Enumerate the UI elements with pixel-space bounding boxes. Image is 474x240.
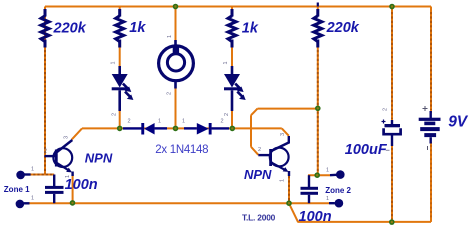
wire R3 top stub [231,7,233,12]
svg-text:1: 1 [158,119,161,125]
svg-text:2: 2 [383,108,389,111]
svg-text:1k: 1k [242,20,259,36]
junction node rail-lamp [173,4,179,10]
junction node B [173,126,179,132]
zone 1 terminal 2 [16,200,30,209]
svg-text:3: 3 [64,136,70,139]
wire Q1 emitter run [72,174,74,203]
wire branch vertical [250,115,252,147]
wire battery bottom column [430,142,432,222]
wire 100uF bottom column [391,145,393,222]
resistor lead tip above rail [317,3,319,7]
resistor 1k left [116,9,124,48]
svg-text:100n: 100n [65,177,98,193]
svg-text:2: 2 [44,149,47,155]
junction node C [230,126,236,132]
zone 2 terminal 1 [330,170,345,179]
svg-text:1: 1 [280,179,286,182]
svg-text:2: 2 [167,92,173,95]
svg-text:1: 1 [326,196,329,202]
junction node G Q2 emitter [286,200,292,206]
wire LED1 to node A [119,110,121,128]
junction node D [315,106,321,112]
svg-text:1: 1 [223,61,229,64]
wire R2 top stub [119,7,121,12]
transistor Q2 NPN [258,136,289,176]
wire R4 top stub [317,7,319,12]
wire LED2 to node C [231,110,233,128]
svg-text:2: 2 [128,119,131,125]
svg-text:1: 1 [182,119,185,125]
wire R2 to LED1 [119,47,121,67]
svg-text:1: 1 [65,175,71,178]
wire bottom rail [298,221,432,223]
battery minus pin mark [427,146,429,150]
svg-text:1: 1 [167,35,173,38]
svg-text:Zone 1: Zone 1 [4,185,30,194]
zone 1 terminal 1 [16,171,30,180]
wire zone2 top row [308,174,330,176]
svg-text:NPN: NPN [244,167,272,182]
svg-text:2x 1N4148: 2x 1N4148 [155,144,208,156]
svg-text:1: 1 [326,168,329,174]
svg-text:2: 2 [112,113,118,116]
wire branch diagonal to Q2 base [251,147,258,155]
zone 2 terminal 2 [329,199,343,208]
wire battery top column [430,7,432,114]
svg-text:100n: 100n [299,209,332,225]
svg-text:1: 1 [31,196,34,202]
wire top rail [45,6,431,8]
svg-text:Zone 2: Zone 2 [325,186,351,195]
svg-text:2: 2 [258,147,261,153]
junction node E [314,172,320,178]
svg-text:1: 1 [111,61,117,64]
wire R3 to LED2 [231,47,233,67]
svg-text:3: 3 [280,133,286,136]
resistor 1k right [228,9,236,48]
diode 1N4148 left [123,123,167,135]
wire lamp bottom to node B [175,84,177,128]
junction node F Q1 emitter [70,200,76,206]
svg-text:1k: 1k [129,20,146,36]
wire middle diode row [82,127,282,129]
wire 100uF top column [391,7,393,123]
svg-text:2: 2 [224,113,230,116]
wire branch diagonal upper [251,109,258,116]
wire diagonal to Q2 collector [282,128,289,135]
LED D2 right [224,66,246,111]
buzzer/bell lamp [159,40,194,89]
wire Q2 emitter run [288,174,290,203]
pin mark near 100uF [386,149,390,151]
wire R1 column [44,7,46,175]
wire diagonal to bottom rail [289,204,298,222]
wire lamp top [175,10,177,38]
resistor 220k right [314,9,322,48]
wire zone1 top row [29,174,54,176]
resistor 220k left [41,9,49,48]
capacitor 100n right [301,175,319,203]
svg-text:2: 2 [221,119,224,125]
svg-text:T.L. 2000: T.L. 2000 [242,213,276,223]
wire R4 column [317,47,319,175]
wire bottom left rail [29,202,329,204]
capacitor 100uF electrolytic [382,120,401,147]
svg-text:220k: 220k [53,20,87,36]
junction node A [117,126,123,132]
junction node rail-100uF [389,4,395,10]
svg-text:NPN: NPN [85,150,113,165]
diode 1N4148 right [184,123,229,135]
wire node D horizontal branch [258,108,318,110]
svg-text:1: 1 [31,167,34,173]
junction node H bottom rail [389,219,395,225]
transistor Q1 NPN [45,140,73,176]
svg-text:100uF: 100uF [345,142,388,158]
svg-text:220k: 220k [326,20,360,36]
svg-text:9V: 9V [448,113,469,130]
LED D1 left [112,66,134,111]
battery plus mark [423,106,428,111]
capacitor 100n left [45,175,64,204]
wire diagonal to Q1 collector [72,128,82,139]
battery 9V [419,111,441,144]
